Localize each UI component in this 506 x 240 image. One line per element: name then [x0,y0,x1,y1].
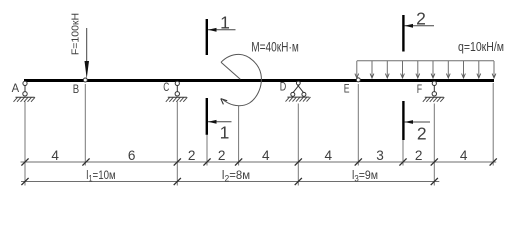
svg-text:2: 2 [415,148,423,163]
svg-text:2: 2 [218,148,226,163]
svg-text:2: 2 [417,124,427,144]
svg-text:2: 2 [416,8,426,28]
svg-text:M=40кН·м: M=40кН·м [251,39,299,54]
svg-text:q=10кН/м: q=10кН/м [458,40,504,54]
svg-text:1: 1 [220,122,230,142]
svg-text:E: E [344,81,350,95]
svg-text:4: 4 [460,148,468,163]
svg-text:2: 2 [188,148,196,163]
svg-text:B: B [73,82,79,96]
svg-text:4: 4 [262,148,270,163]
svg-text:6: 6 [128,148,136,163]
svg-text:A: A [12,81,20,95]
svg-text:3: 3 [376,148,384,163]
svg-text:4: 4 [325,148,333,163]
svg-text:F: F [417,82,422,96]
svg-text:D: D [280,80,287,94]
svg-text:1: 1 [220,12,230,32]
svg-text:4: 4 [51,148,59,163]
svg-text:F=100кН: F=100кН [69,13,81,55]
svg-text:C: C [163,80,169,94]
